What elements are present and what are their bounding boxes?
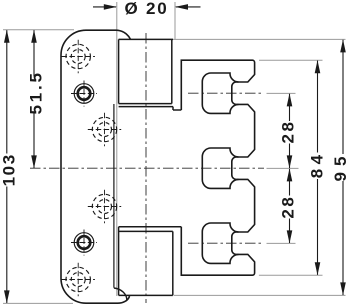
hinge leaf outline: [61, 30, 131, 303]
claw slot 2 end: [232, 157, 239, 179]
extension line roll bottom (95 dim): [174, 294, 346, 296]
centerline hinge axis vertical: [145, 33, 147, 303]
svg-text:95: 95: [331, 151, 350, 182]
centerline claw1: [188, 92, 264, 94]
hinge roll upper segment: [119, 39, 182, 110]
extension line x117 (hinge roll left, long): [116, 2, 118, 296]
centerline claw3: [188, 242, 264, 244]
drill circle lower-middle (dashed): [88, 190, 121, 223]
dim diameter 20 left arrow: [93, 4, 117, 10]
dim line 28 lower: [287, 168, 293, 243]
drill circle upper-middle (dashed): [88, 113, 121, 146]
leaf right edge: [113, 104, 115, 288]
extension line roll top (95 dim): [173, 38, 346, 40]
dim line 95: [340, 39, 346, 295]
leaf bottom-right curl: [114, 288, 127, 300]
dim line 28 upper: [287, 93, 293, 168]
svg-text:84: 84: [308, 150, 327, 178]
hinge roll lower segment: [119, 227, 182, 296]
svg-text:28: 28: [278, 120, 297, 144]
dim line 84: [315, 60, 321, 275]
claw slot 1 end: [232, 82, 239, 104]
drill circle bottom (dashed): [62, 263, 95, 296]
extension line claw1 axis (28 dim): [267, 92, 296, 94]
drill circle top (dashed): [62, 40, 95, 73]
centerline main horizontal: [30, 167, 264, 169]
extension line center axis (28 dim): [267, 167, 299, 169]
svg-text:103: 103: [0, 153, 19, 186]
dim line 51.5: [31, 30, 37, 169]
svg-text:28: 28: [278, 195, 297, 219]
claw part outline: [181, 60, 254, 275]
screw hole lower: [71, 230, 97, 256]
extension line bottom-left (leaf bottom): [3, 302, 73, 304]
extension line claw bottom (84 dim): [259, 274, 323, 276]
claw slot 3 end: [232, 232, 239, 254]
dim diameter 20 right arrow: [175, 4, 201, 10]
svg-text:Ø 20: Ø 20: [125, 0, 169, 18]
dim line 103: [4, 30, 10, 304]
extension line x175 (hinge roll right, top dim): [174, 2, 176, 39]
svg-text:51.5: 51.5: [26, 70, 45, 114]
extension line claw3 axis (28 dim): [267, 242, 296, 244]
screw hole upper: [71, 81, 97, 107]
extension line top-left (leaf top): [3, 29, 74, 31]
extension line claw top (84 dim): [259, 59, 323, 61]
